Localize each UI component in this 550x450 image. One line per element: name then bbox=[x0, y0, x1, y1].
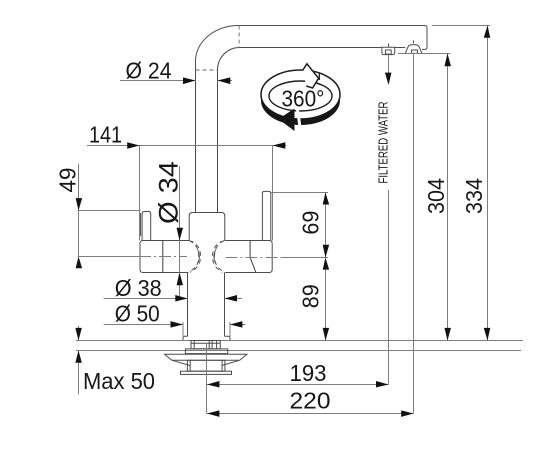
svg-text:334: 334 bbox=[461, 178, 487, 214]
left handle body bbox=[140, 241, 189, 273]
lower column bbox=[188, 273, 225, 337]
under-deck washer bbox=[185, 349, 227, 354]
axis line below base bbox=[206, 344, 208, 414]
dim: diameter 34 handle bbox=[154, 161, 184, 299]
base flange bbox=[183, 336, 230, 340]
dim: 334 spout height bbox=[432, 26, 490, 341]
right handle body bbox=[225, 241, 272, 273]
svg-text:360°: 360° bbox=[282, 86, 325, 112]
central body top block bbox=[189, 213, 225, 241]
hourglass neck left bbox=[188, 241, 201, 273]
dim: 89 centerline to deck bbox=[297, 258, 329, 341]
hourglass neck right bbox=[213, 241, 226, 273]
dim: diameter 50 flange bbox=[104, 301, 246, 337]
dim: Max 50 deck thickness bbox=[75, 326, 155, 394]
svg-text:141: 141 bbox=[89, 122, 122, 148]
dim: 220 reach main bbox=[207, 388, 414, 417]
handle centerline bbox=[78, 257, 328, 258]
left lever rod bbox=[141, 212, 151, 241]
svg-text:Max 50: Max 50 bbox=[83, 368, 155, 394]
deck line bottom bbox=[76, 350, 521, 352]
mounting nut bbox=[187, 360, 225, 371]
deck line top bbox=[76, 340, 523, 342]
filtered water outlet (small, under spout) bbox=[382, 44, 395, 55]
main outlet leader bbox=[413, 54, 415, 414]
dim: 49 lever height bbox=[54, 164, 140, 268]
svg-text:49: 49 bbox=[54, 168, 80, 193]
svg-text:Ø 38: Ø 38 bbox=[115, 275, 162, 301]
svg-text:220: 220 bbox=[290, 388, 331, 414]
dim: 141 overall handle width bbox=[87, 122, 287, 241]
dim: diameter 38 column bbox=[104, 275, 242, 302]
svg-text:Ø 50: Ø 50 bbox=[115, 301, 160, 327]
svg-text:69: 69 bbox=[297, 211, 323, 235]
cone transitions bbox=[172, 360, 239, 365]
svg-text:Ø 34: Ø 34 bbox=[154, 161, 184, 224]
outlet base line (extension to 304) bbox=[398, 53, 450, 55]
dim: 69 lever to centerline bbox=[271, 193, 329, 341]
svg-text:193: 193 bbox=[290, 360, 327, 386]
svg-text:Ø 24: Ø 24 bbox=[126, 58, 172, 84]
nut bottom flange bbox=[181, 371, 232, 374]
dim: 304 outlet height bbox=[423, 54, 451, 341]
svg-text:89: 89 bbox=[297, 284, 323, 308]
threaded shank bbox=[191, 341, 220, 349]
dim: 193 reach filtered bbox=[207, 360, 389, 387]
spout tube (L-shaped) bbox=[196, 26, 428, 213]
dim: diameter 24 bbox=[120, 58, 232, 85]
bend tangent dashes bbox=[196, 26, 240, 71]
mounting bracket bar bbox=[165, 354, 247, 360]
360 degree rotation symbol bbox=[261, 64, 340, 131]
right lever rod bbox=[262, 191, 270, 240]
filtered water leader bbox=[375, 55, 391, 385]
svg-text:FILTERED WATER: FILTERED WATER bbox=[375, 102, 390, 184]
main outlet (dome at spout end) bbox=[405, 41, 422, 54]
svg-text:304: 304 bbox=[423, 178, 449, 214]
